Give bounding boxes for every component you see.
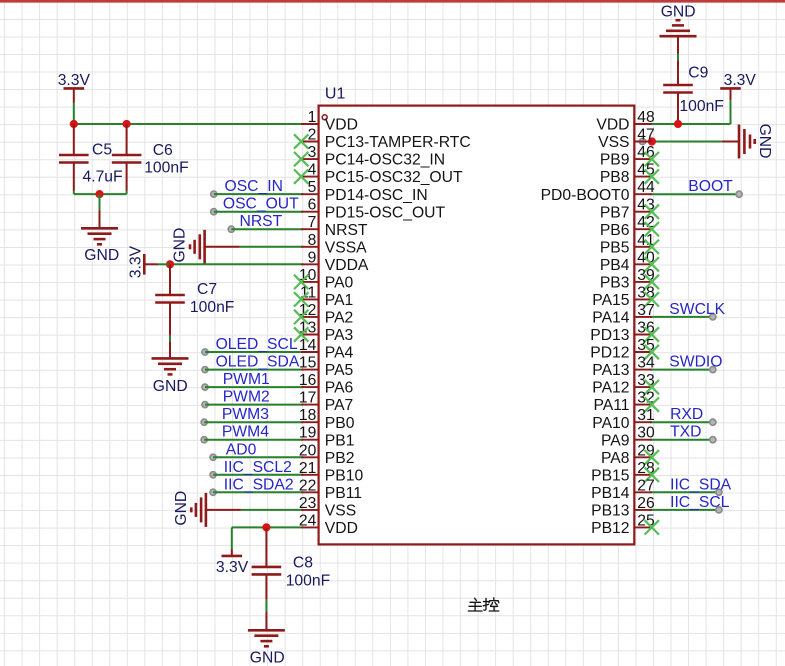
pin 31 stub [634, 421, 652, 423]
svg-text:9: 9 [308, 249, 317, 266]
text 主控 (main controller) [468, 598, 499, 611]
svg-text:3.3V: 3.3V [127, 245, 144, 278]
pin 47 stub [634, 141, 652, 143]
svg-text:PA12: PA12 [592, 380, 629, 397]
wire end dot OLED_SCL [202, 349, 208, 355]
svg-text:48: 48 [637, 109, 655, 126]
svg-text:VDD: VDD [325, 117, 358, 134]
GND stem (C8) [265, 612, 267, 631]
wire end dot NRST [228, 226, 234, 232]
power flag 3.3V bar (pin 24, inverted) [222, 555, 243, 558]
wire C7 to GND [169, 336, 171, 342]
wire OLED_SCL to pin 14 [205, 351, 303, 353]
svg-text:47: 47 [637, 127, 654, 144]
svg-text:OSC_IN: OSC_IN [225, 178, 283, 195]
no-connect flag pin 33 [645, 380, 659, 394]
wire C5 bottom [73, 191, 75, 195]
pin 14 stub [301, 351, 318, 353]
wire end dot OLED_SDA [202, 367, 208, 373]
pin 46 stub [634, 158, 652, 160]
svg-text:PC15-OSC32_OUT: PC15-OSC32_OUT [325, 169, 463, 186]
svg-text:PWM1: PWM1 [223, 371, 270, 388]
wire VSSA to GND [240, 246, 303, 248]
pin 17 stub [301, 404, 318, 406]
svg-text:PB6: PB6 [600, 222, 630, 239]
3.3V stem (pin 24) [231, 549, 233, 556]
svg-text:GND: GND [250, 649, 285, 666]
svg-text:3.3V: 3.3V [58, 72, 91, 89]
svg-text:PB5: PB5 [600, 239, 630, 256]
svg-text:PD13: PD13 [590, 327, 630, 344]
svg-text:PA13: PA13 [592, 362, 629, 379]
wire C5-C6 bottom rail [74, 193, 127, 195]
pin 4 stub [301, 176, 318, 178]
power flag 3.3V stem [73, 88, 75, 102]
svg-text:VSS: VSS [325, 503, 356, 520]
svg-text:15: 15 [299, 355, 317, 372]
pin 13 stub [301, 334, 318, 336]
svg-text:21: 21 [299, 460, 316, 477]
ground (VSSA pin 8) [190, 230, 205, 264]
svg-text:C8: C8 [293, 554, 313, 571]
pin 1 stub [301, 123, 318, 125]
pin 8 stub [301, 246, 318, 248]
wire end dot PWM1 [202, 384, 208, 390]
wire 3.3V to VDD rail [73, 103, 75, 125]
svg-text:PB11: PB11 [325, 485, 362, 502]
no-connect flag pin 25 [645, 520, 659, 534]
wire end dot OSC_IN [211, 191, 217, 197]
wire IIC_SCL2 to pin 21 [213, 474, 303, 476]
wire TXD from pin 30 [650, 439, 713, 441]
capacitor C6 top lead [126, 124, 128, 155]
pin 7 stub [301, 228, 318, 230]
svg-text:C9: C9 [688, 64, 708, 81]
wire pin 48 VDD [634, 123, 730, 125]
svg-text:NRST: NRST [240, 213, 283, 230]
no-connect flag pin 2 [294, 134, 308, 148]
svg-text:30: 30 [637, 425, 655, 442]
capacitor C6 bottom lead [126, 163, 128, 191]
junction at C5 top [70, 120, 78, 128]
svg-text:VDDA: VDDA [325, 257, 369, 274]
svg-text:SWDIO: SWDIO [669, 354, 722, 371]
pin 6 stub [301, 211, 318, 213]
svg-text:PB0: PB0 [325, 415, 355, 432]
svg-text:C6: C6 [153, 142, 173, 159]
pin 39 stub [634, 281, 652, 283]
power flag 3.3V bar (top right) [720, 87, 741, 90]
svg-text:34: 34 [637, 355, 655, 372]
svg-text:PD0-BOOT0: PD0-BOOT0 [541, 187, 630, 204]
svg-text:IIC_SDA2: IIC_SDA2 [224, 476, 294, 493]
svg-text:NRST: NRST [325, 222, 368, 239]
svg-text:VDD: VDD [325, 520, 358, 537]
svg-text:PA15: PA15 [592, 292, 629, 309]
wire end dot IIC_SCL [716, 507, 722, 513]
svg-text:PB3: PB3 [600, 275, 630, 292]
no-connect flag pin 40 [645, 257, 659, 271]
svg-text:PA6: PA6 [325, 380, 354, 397]
pin 28 stub [634, 474, 652, 476]
wire OSC_IN to pin 5 [214, 193, 303, 195]
pin 47 junction dot [648, 137, 656, 145]
svg-text:PA3: PA3 [325, 327, 354, 344]
wire IIC_SCL from pin 26 [650, 509, 719, 511]
pin 29 stub [634, 456, 652, 458]
svg-text:PC13-TAMPER-RTC: PC13-TAMPER-RTC [325, 134, 471, 151]
svg-text:100nF: 100nF [190, 299, 234, 316]
svg-text:C7: C7 [197, 281, 217, 298]
3.3V stem (top right) [730, 88, 732, 100]
wire IIC_SDA from pin 27 [650, 491, 719, 493]
svg-text:24: 24 [299, 512, 317, 529]
pin 45 stub [634, 176, 652, 178]
wire end dot IIC_SDA2 [210, 489, 216, 495]
pin 19 stub [301, 439, 318, 441]
capacitor C6 [112, 155, 142, 163]
svg-text:23: 23 [299, 495, 317, 512]
svg-text:100nF: 100nF [679, 98, 723, 115]
svg-text:OSC_OUT: OSC_OUT [223, 196, 299, 213]
pin 24 stub [301, 526, 318, 528]
wire VDDA to 3.3V [158, 263, 170, 265]
junction VDDA / C7 [166, 260, 174, 268]
svg-text:BOOT: BOOT [688, 178, 733, 195]
svg-text:PB15: PB15 [591, 467, 630, 484]
wire SWCLK from pin 37 [650, 316, 713, 318]
wire C6 bottom [126, 191, 128, 195]
wire end dot PWM3 [201, 419, 207, 425]
wire end dot AD0 [210, 454, 216, 460]
no-connect flag pin 29 [645, 450, 659, 464]
wire BOOT from pin 44 [650, 193, 739, 195]
svg-text:27: 27 [637, 477, 654, 494]
no-connect flag pin 41 [645, 240, 659, 254]
svg-text:PA8: PA8 [601, 450, 630, 467]
svg-text:PB1: PB1 [325, 432, 355, 449]
svg-text:PA14: PA14 [592, 310, 629, 327]
wire OLED_SDA to pin 15 [205, 369, 303, 371]
svg-text:RXD: RXD [670, 406, 703, 423]
GND stem (VSSA) [205, 246, 240, 248]
wire RXD from pin 31 [650, 421, 713, 423]
svg-text:IIC_SCL2: IIC_SCL2 [224, 459, 292, 476]
op-amp U1 body [319, 106, 635, 545]
GND stem (C9 top) [677, 36, 679, 53]
wire 3.3V down [730, 100, 732, 124]
svg-text:AD0: AD0 [226, 441, 257, 458]
svg-text:OLED_SCL: OLED_SCL [216, 336, 298, 353]
junction at C6 top [123, 120, 131, 128]
no-connect flag pin 13 [294, 327, 308, 341]
wire SWDIO from pin 34 [650, 369, 713, 371]
pin 48 stub [634, 123, 652, 125]
no-connect flag pin 39 [645, 275, 659, 289]
ground (top right, inverted) [660, 20, 697, 36]
no-connect flag pin 12 [294, 310, 308, 324]
svg-text:GND: GND [84, 247, 119, 264]
svg-text:PA9: PA9 [601, 432, 630, 449]
no-connect flag pin 11 [294, 292, 308, 306]
pin 5 stub [301, 193, 318, 195]
pin 20 stub [301, 456, 318, 458]
wire GND to C9 [677, 54, 679, 61]
svg-text:PA11: PA11 [593, 397, 629, 414]
svg-text:GND: GND [661, 3, 696, 20]
svg-text:PWM2: PWM2 [223, 389, 270, 406]
3.3V stem (VDDA) [144, 263, 158, 265]
pin 15 stub [301, 369, 318, 371]
svg-text:5: 5 [308, 179, 317, 196]
capacitor C7 [155, 295, 185, 303]
wire end dot SWCLK [710, 314, 716, 320]
wire VDD pin 24 [232, 526, 303, 528]
svg-text:PD14-OSC_IN: PD14-OSC_IN [325, 187, 428, 204]
pin 33 stub [634, 386, 652, 388]
pin 16 stub [301, 386, 318, 388]
pin 34 stub [634, 369, 652, 371]
pin 11 stub [301, 298, 318, 300]
pin 22 stub [301, 491, 318, 493]
wire OSC_OUT to pin 6 [214, 211, 303, 213]
svg-text:GND: GND [172, 228, 189, 263]
capacitor C9 top lead [677, 60, 679, 85]
pin 44 stub [634, 193, 652, 195]
pin 12 stub [301, 316, 318, 318]
svg-text:PB14: PB14 [591, 485, 630, 502]
no-connect flag pin 36 [645, 327, 659, 341]
wire end dot BOOT [736, 191, 742, 197]
wire IIC_SDA2 to pin 22 [213, 491, 303, 493]
power flag 3.3V bar (top left) [64, 87, 85, 90]
no-connect flag pin 35 [645, 345, 659, 359]
wire end dot PWM2 [202, 402, 208, 408]
pin 43 stub [634, 211, 652, 213]
svg-text:PB12: PB12 [591, 520, 629, 537]
svg-text:PA7: PA7 [325, 397, 354, 414]
svg-text:PD15-OSC_OUT: PD15-OSC_OUT [325, 204, 446, 221]
svg-text:PB4: PB4 [600, 257, 630, 274]
wire AD0 to pin 20 [213, 456, 303, 458]
svg-text:100nF: 100nF [144, 159, 188, 176]
svg-text:44: 44 [637, 179, 655, 196]
svg-text:PB2: PB2 [325, 450, 355, 467]
wire to GND symbol [99, 194, 101, 210]
svg-text:PB10: PB10 [325, 467, 364, 484]
ground (C7) [152, 358, 189, 374]
svg-text:PA4: PA4 [325, 345, 354, 362]
GND stem (C7) [169, 341, 171, 358]
capacitor C7 top lead [169, 264, 171, 295]
svg-text:PB7: PB7 [600, 204, 630, 221]
capacitor C8 bottom lead [265, 574, 267, 599]
svg-text:4.7uF: 4.7uF [83, 168, 123, 185]
wire end dot TXD [710, 437, 716, 443]
pin 2 stub [301, 141, 318, 143]
svg-text:PD12: PD12 [590, 345, 629, 362]
pin 47 gray dot [639, 138, 645, 144]
svg-text:PA10: PA10 [592, 415, 629, 432]
pin 23 stub [301, 509, 318, 511]
GND stem [99, 211, 101, 229]
svg-text:31: 31 [637, 407, 654, 424]
pin 9 stub [301, 263, 318, 265]
svg-text:VDD: VDD [596, 117, 629, 134]
pin 38 stub [634, 298, 652, 300]
svg-text:C5: C5 [92, 141, 112, 158]
svg-text:PB8: PB8 [600, 169, 630, 186]
wire PWM4 to pin 19 [204, 439, 303, 441]
capacitor C5 bottom lead [73, 163, 75, 191]
pin 27 stub [634, 491, 652, 493]
svg-text:PB13: PB13 [591, 503, 630, 520]
wire end dot IIC_SCL2 [210, 472, 216, 478]
svg-text:16: 16 [299, 372, 317, 389]
pin 21 stub [301, 474, 318, 476]
wire end dot OSC_OUT [211, 209, 217, 215]
svg-text:PB9: PB9 [600, 152, 630, 169]
svg-text:8: 8 [308, 232, 317, 249]
wire NRST to pin 7 [231, 228, 303, 230]
wire end dot SWDIO [710, 367, 716, 373]
capacitor C7 bottom lead [169, 303, 171, 336]
no-connect flag pin 43 [645, 205, 659, 219]
svg-text:1: 1 [308, 109, 317, 126]
svg-text:IIC_SCL: IIC_SCL [670, 494, 730, 511]
wire end dot IIC_SDA [716, 489, 722, 495]
svg-text:PA5: PA5 [325, 362, 354, 379]
svg-text:VSS: VSS [598, 134, 629, 151]
ground (pin 47) [739, 125, 755, 159]
svg-text:PWM3: PWM3 [222, 406, 269, 423]
junction C9 / pin 48 [674, 120, 682, 128]
pin 35 stub [634, 351, 652, 353]
svg-text:VSSA: VSSA [325, 239, 367, 256]
no-connect flag pin 42 [645, 222, 659, 236]
svg-text:U1: U1 [325, 85, 346, 102]
pin 10 stub [301, 281, 318, 283]
no-connect flag pin 45 [645, 169, 659, 183]
svg-text:6: 6 [308, 197, 317, 214]
wire VDDA [170, 263, 303, 265]
svg-text:TXD: TXD [670, 424, 701, 441]
pin 30 stub [634, 439, 652, 441]
no-connect flag pin 46 [645, 152, 659, 166]
ground (C5/C6) [81, 228, 118, 244]
GND stem (pin 47) [722, 141, 739, 143]
capacitor C9 [663, 85, 693, 93]
GND stem (VSS) [206, 509, 241, 511]
wire PWM2 to pin 17 [205, 404, 303, 406]
wire down to 3.3V flag [231, 527, 233, 549]
no-connect flag pin 3 [294, 152, 308, 166]
pin 37 stub [634, 316, 652, 318]
pin 32 stub [634, 404, 652, 406]
pin 18 stub [301, 421, 318, 423]
wire VSS to GND [241, 509, 303, 511]
wire PWM3 to pin 18 [204, 421, 303, 423]
pin 1 indicator [322, 115, 327, 120]
svg-text:14: 14 [299, 337, 317, 354]
wire end dot PWM4 [201, 437, 207, 443]
svg-text:PA1: PA1 [325, 292, 354, 309]
svg-text:17: 17 [299, 390, 316, 407]
wire VDD rail to pin 1 [74, 123, 303, 125]
pin 26 stub [634, 509, 652, 511]
svg-text:20: 20 [299, 442, 317, 459]
power flag 3.3V bar (VDDA) [143, 254, 146, 275]
capacitor C8 [252, 567, 282, 575]
no-connect flag pin 10 [294, 275, 308, 289]
svg-text:100nF: 100nF [286, 572, 330, 589]
svg-text:19: 19 [299, 425, 316, 442]
capacitor C9 bottom lead [677, 93, 679, 125]
svg-text:22: 22 [299, 477, 316, 494]
pin 25 stub [634, 526, 652, 528]
pin 40 stub [634, 263, 652, 265]
junction GND tap [95, 190, 103, 198]
svg-text:3.3V: 3.3V [724, 72, 757, 89]
svg-text:37: 37 [637, 302, 654, 319]
ground (C8) [248, 630, 285, 646]
no-connect flag pin 32 [645, 397, 659, 411]
svg-text:PWM4: PWM4 [222, 424, 269, 441]
svg-text:IIC_SDA: IIC_SDA [670, 476, 732, 493]
pin 36 stub [634, 334, 652, 336]
svg-text:3.3V: 3.3V [216, 559, 249, 576]
svg-text:GND: GND [756, 124, 773, 159]
no-connect flag pin 4 [294, 169, 308, 183]
no-connect flag pin 28 [645, 468, 659, 482]
svg-text:26: 26 [637, 495, 655, 512]
svg-text:GND: GND [153, 378, 188, 395]
ground (VSS pin 23) [191, 493, 206, 527]
wire pin 47 VSS [641, 141, 722, 143]
svg-text:OLED_SDA: OLED_SDA [216, 354, 300, 371]
wire C8 to GND [265, 600, 267, 612]
svg-text:PA2: PA2 [325, 310, 354, 327]
wire end dot RXD [710, 419, 716, 425]
svg-text:GND: GND [173, 491, 190, 526]
wire PWM1 to pin 16 [205, 386, 303, 388]
sheet border top [0, 0, 785, 3]
svg-text:18: 18 [299, 407, 317, 424]
no-connect flag pin 38 [645, 292, 659, 306]
junction C8 top [262, 523, 270, 531]
capacitor C8 top lead [265, 527, 267, 567]
capacitor C5 [59, 155, 89, 163]
capacitor C5 top lead [73, 124, 75, 155]
svg-text:PA0: PA0 [325, 275, 354, 292]
pin 41 stub [634, 246, 652, 248]
pin 3 stub [301, 158, 318, 160]
svg-text:PC14-OSC32_IN: PC14-OSC32_IN [325, 152, 445, 169]
svg-text:SWCLK: SWCLK [669, 301, 725, 318]
pin 42 stub [634, 228, 652, 230]
svg-text:7: 7 [308, 214, 317, 231]
